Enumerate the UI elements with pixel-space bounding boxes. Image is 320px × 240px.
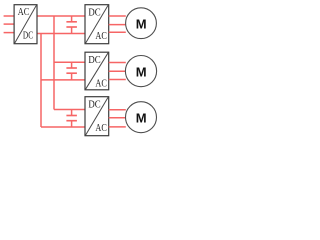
wire inverter 1 output phase a (109, 15, 126, 17)
capacitor C1 (DC link inverter 1) (66, 16, 77, 34)
wire inverter 2 output phase b (109, 70, 126, 72)
wire inverter 3 output phase b (109, 117, 126, 119)
wire vertical bus B (negative distribution) (40, 34, 42, 128)
inverter U2 DC/AC block (85, 52, 109, 90)
motor M1 (126, 8, 157, 39)
wire AC input phase 1 (4, 15, 14, 17)
rectifier AC/DC converter block (14, 5, 37, 44)
wire inverter 1 output phase c (109, 31, 126, 33)
svg-text:DC: DC (88, 8, 100, 19)
motor M3 (126, 102, 157, 133)
wire DC bus negative rail (37, 33, 85, 35)
wire inverter 1 output phase b (109, 24, 126, 26)
inverter U1 DC/AC block (85, 5, 109, 44)
wire inverter 2 output phase c (109, 79, 126, 81)
motor M2 (125, 56, 156, 87)
wire branch to inverter 2 positive (54, 61, 85, 63)
wire DC bus positive rail (37, 15, 85, 17)
wire AC input phase 3 (4, 32, 14, 34)
svg-text:DC: DC (88, 55, 100, 66)
svg-text:M: M (136, 16, 147, 31)
svg-text:M: M (136, 110, 147, 125)
wire AC input phase 2 (4, 23, 14, 25)
inverter U3 DC/AC block (85, 97, 109, 136)
svg-text:AC: AC (18, 7, 30, 18)
svg-text:DC: DC (88, 100, 100, 111)
svg-text:DC: DC (23, 30, 33, 41)
wire branch to inverter 2 negative (41, 79, 85, 81)
capacitor C3 (DC link inverter 3) (66, 110, 77, 128)
svg-text:AC: AC (95, 79, 106, 90)
svg-text:M: M (136, 64, 147, 79)
svg-text:AC: AC (95, 123, 106, 134)
wire inverter 3 output phase c (109, 126, 126, 128)
wire inverter 3 output phase a (109, 109, 126, 111)
wire to inverter 3 positive (54, 109, 85, 111)
wire to inverter 3 negative (41, 126, 85, 128)
wire vertical bus A (positive distribution) (53, 16, 55, 110)
svg-text:AC: AC (95, 31, 106, 42)
capacitor C2 (DC link inverter 2) (66, 62, 77, 80)
wire inverter 2 output phase a (109, 62, 126, 64)
